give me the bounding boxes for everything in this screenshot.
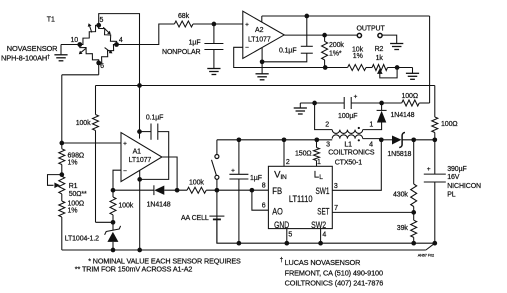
svg-text:+: + xyxy=(245,22,249,29)
svg-text:COILTRONICS: COILTRONICS xyxy=(328,150,375,157)
svg-text:1%: 1% xyxy=(68,208,78,215)
svg-text:1%: 1% xyxy=(68,160,78,167)
svg-text:4: 4 xyxy=(119,37,123,44)
svg-text:100k: 100k xyxy=(118,203,133,210)
svg-text:+: + xyxy=(354,93,358,100)
svg-text:T1: T1 xyxy=(47,17,55,24)
svg-text:L1: L1 xyxy=(344,141,352,148)
svg-text:4: 4 xyxy=(322,232,326,239)
svg-text:NOVASENSOR: NOVASENSOR xyxy=(7,44,58,53)
svg-text:LT1110: LT1110 xyxy=(289,194,313,205)
svg-text:1: 1 xyxy=(317,159,321,166)
svg-text:AO: AO xyxy=(272,207,283,218)
svg-text:100k: 100k xyxy=(76,120,91,127)
svg-text:1N4148: 1N4148 xyxy=(391,112,415,119)
svg-text:1N4148: 1N4148 xyxy=(147,202,171,209)
svg-text:−: − xyxy=(245,45,249,52)
svg-text:FREMONT, CA (510) 490-9100: FREMONT, CA (510) 490-9100 xyxy=(285,268,383,277)
svg-text:NICHICON: NICHICON xyxy=(447,183,481,190)
svg-text:NONPOLAR: NONPOLAR xyxy=(162,49,201,56)
svg-text:1N5818: 1N5818 xyxy=(387,151,411,158)
svg-text:R2: R2 xyxy=(375,46,384,53)
svg-text:2: 2 xyxy=(325,122,329,129)
svg-text:3: 3 xyxy=(326,141,330,148)
svg-text:7: 7 xyxy=(334,205,338,212)
svg-text:2: 2 xyxy=(286,159,290,166)
svg-text:OUTPUT: OUTPUT xyxy=(357,26,386,33)
svg-text:150Ω: 150Ω xyxy=(295,150,312,157)
svg-text:1%*: 1%* xyxy=(329,50,342,57)
svg-text:1k: 1k xyxy=(376,55,384,62)
svg-text:6: 6 xyxy=(262,202,266,209)
svg-text:1%: 1% xyxy=(353,53,363,60)
svg-text:LUCAS NOVASENSOR: LUCAS NOVASENSOR xyxy=(285,258,361,267)
svg-text:8: 8 xyxy=(262,182,266,189)
svg-text:1: 1 xyxy=(369,122,373,129)
svg-text:COILTRONICS (407) 241-7876: COILTRONICS (407) 241-7876 xyxy=(285,279,384,288)
svg-text:5: 5 xyxy=(100,17,104,24)
svg-text:†: † xyxy=(280,256,284,263)
svg-text:A2: A2 xyxy=(255,27,264,34)
svg-text:+: + xyxy=(427,166,431,173)
svg-text:100Ω: 100Ω xyxy=(441,121,458,128)
svg-text:IN: IN xyxy=(280,174,287,181)
svg-text:3: 3 xyxy=(334,183,338,190)
svg-text:4: 4 xyxy=(369,141,373,148)
svg-text:100k: 100k xyxy=(189,180,204,187)
svg-text:0.1µF: 0.1µF xyxy=(146,114,164,121)
svg-text:698Ω: 698Ω xyxy=(68,153,85,160)
svg-text:1µF: 1µF xyxy=(189,39,201,46)
svg-text:1µF: 1µF xyxy=(250,175,262,182)
svg-text:LT1077: LT1077 xyxy=(248,37,271,44)
svg-text:NPH-8-100AH†: NPH-8-100AH† xyxy=(1,54,50,63)
svg-text:+: + xyxy=(231,167,235,174)
svg-text:LT1004-1.2: LT1004-1.2 xyxy=(65,236,99,243)
svg-text:LT1077: LT1077 xyxy=(129,157,152,164)
svg-text:** TRIM FOR 150mV ACROSS A1-A2: ** TRIM FOR 150mV ACROSS A1-A2 xyxy=(75,264,193,273)
svg-text:L: L xyxy=(319,174,323,181)
svg-text:+: + xyxy=(123,141,127,148)
svg-text:390µF: 390µF xyxy=(447,166,467,173)
svg-text:16V: 16V xyxy=(447,174,460,181)
svg-text:SET: SET xyxy=(317,207,329,218)
svg-text:5: 5 xyxy=(288,232,292,239)
svg-text:AA CELL: AA CELL xyxy=(181,215,209,222)
svg-text:100µF: 100µF xyxy=(338,113,358,120)
svg-text:PL: PL xyxy=(447,191,456,198)
svg-text:100Ω: 100Ω xyxy=(68,201,85,208)
svg-text:68k: 68k xyxy=(178,13,190,20)
svg-text:0.1µF: 0.1µF xyxy=(279,48,297,55)
svg-text:AN67 F02: AN67 F02 xyxy=(418,254,434,258)
svg-text:SW1: SW1 xyxy=(316,186,330,197)
svg-text:CTX50-1: CTX50-1 xyxy=(335,159,363,166)
svg-text:10: 10 xyxy=(71,37,79,44)
svg-text:R1: R1 xyxy=(69,183,78,190)
svg-text:FB: FB xyxy=(272,186,282,197)
svg-text:SW2: SW2 xyxy=(311,220,326,231)
svg-text:−: − xyxy=(123,168,127,175)
svg-text:430k: 430k xyxy=(393,192,408,199)
svg-text:200k: 200k xyxy=(329,42,344,49)
svg-text:100Ω: 100Ω xyxy=(401,93,418,100)
svg-text:39k: 39k xyxy=(397,225,409,232)
svg-text:A1: A1 xyxy=(133,148,142,155)
svg-text:6: 6 xyxy=(100,63,104,70)
svg-text:50Ω**: 50Ω** xyxy=(69,191,87,198)
